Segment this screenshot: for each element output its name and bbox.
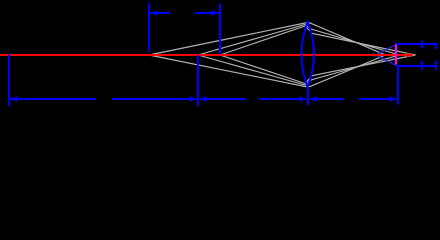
bottom dim arrowhead at left bar — [11, 96, 18, 101]
pupil diameter arrow 2 bottom — [434, 60, 438, 71]
focal plane bar F2 — [219, 4, 221, 55]
top dimension left arrowhead — [151, 10, 158, 15]
optical axis (red) — [0, 54, 407, 56]
bottom dim arrowheads at lens bar — [300, 96, 307, 101]
marginal ray to exit pupil bottom edge (blue) — [373, 54, 396, 66]
lens axis tick down to dimension line — [307, 88, 309, 106]
ray S2 upper — [198, 25, 400, 56]
marginal ray to exit pupil top edge (blue) — [373, 45, 396, 57]
eyepiece lens (biconvex) — [302, 22, 315, 87]
bottom dimension line segments — [9, 98, 96, 100]
right end bar of bottom dimension — [397, 66, 399, 105]
bottom dim arrowheads at mid bar — [190, 96, 197, 101]
ray S1 lower — [149, 55, 386, 87]
mid marker bar below axis — [197, 55, 199, 107]
ray S3 upper — [220, 26, 416, 55]
object marker bar at left — [8, 54, 10, 106]
pupil diameter arrow 1 bottom — [420, 60, 424, 71]
exit pupil bracket top line — [396, 43, 438, 45]
bottom dim arrowhead at right bar — [390, 96, 397, 101]
ray S3 lower — [220, 55, 416, 84]
exit pupil (magenta) — [395, 44, 397, 65]
ray S1 upper: focal point to lens top, refracted to image I1 — [149, 23, 386, 55]
ray S2 lower — [198, 55, 400, 85]
pupil diameter arrow 1 top — [420, 40, 424, 50]
top dimension line — [150, 12, 170, 14]
pupil diameter arrow 2 top — [434, 44, 437, 50]
focal plane bar F1 — [148, 3, 150, 52]
top dimension right arrowhead — [212, 10, 219, 15]
exit pupil bracket bottom line — [396, 65, 437, 67]
axis arrowhead — [407, 53, 415, 58]
